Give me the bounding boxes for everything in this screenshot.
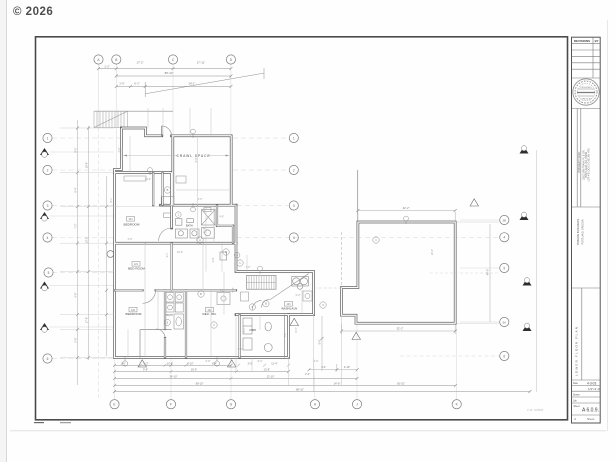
svg-text:C: C (236, 254, 238, 257)
svg-text:Date: Date (573, 382, 579, 385)
svg-text:DESIGNED: DESIGNED (580, 87, 592, 89)
svg-text:1'-2": 1'-2" (104, 64, 110, 68)
svg-text:BATH: BATH (166, 314, 172, 317)
svg-text:13'-8": 13'-8" (264, 369, 270, 372)
svg-text:B: B (265, 302, 267, 306)
svg-text:1: 1 (293, 136, 295, 140)
svg-text:123: 123 (286, 303, 291, 306)
svg-text:REC. RM.: REC. RM. (203, 312, 217, 316)
svg-text:F: F (170, 403, 172, 407)
svg-text:4: 4 (293, 236, 295, 240)
svg-text:4'-0": 4'-0" (321, 366, 326, 369)
svg-text:1: 1 (47, 136, 49, 140)
svg-text:56'-10": 56'-10" (397, 382, 405, 385)
svg-text:6'-8": 6'-8" (206, 360, 211, 363)
svg-text:3: 3 (293, 204, 295, 208)
svg-text:17'-2": 17'-2" (136, 60, 143, 64)
svg-text:8'-0": 8'-0" (74, 147, 77, 152)
svg-text:BEDROOM: BEDROOM (124, 223, 140, 227)
svg-text:7'-2": 7'-2" (74, 223, 77, 228)
svg-text:4'-10": 4'-10" (344, 366, 350, 369)
svg-text:5'-2": 5'-2" (144, 362, 149, 365)
svg-text:OREGON: OREGON (581, 99, 591, 101)
svg-text:3'-1": 3'-1" (166, 252, 169, 257)
svg-text:122: 122 (207, 309, 212, 312)
svg-text:6'-4": 6'-4" (74, 187, 77, 192)
svg-text:3'-6": 3'-6" (198, 198, 203, 201)
svg-text:PROJECT FOR:: PROJECT FOR: (577, 151, 581, 172)
svg-text:4'-2": 4'-2" (118, 147, 121, 152)
svg-text:88'-10": 88'-10" (165, 71, 174, 75)
svg-text:32'-2": 32'-2" (397, 327, 404, 331)
svg-text:Sheets: Sheets (587, 418, 595, 421)
svg-text:2: 2 (293, 168, 295, 172)
svg-text:BEDROOM: BEDROOM (126, 312, 142, 316)
svg-text:14'-6": 14'-6" (334, 381, 341, 385)
svg-text:8'-0": 8'-0" (258, 360, 263, 363)
svg-text:49'-8": 49'-8" (486, 269, 490, 276)
svg-text:10'-6": 10'-6" (177, 251, 183, 254)
svg-text:8'-10": 8'-10" (187, 362, 193, 365)
svg-text:CRAWL SPACE: CRAWL SPACE (176, 154, 210, 158)
svg-text:B: B (167, 188, 169, 192)
svg-text:BED ROOM: BED ROOM (128, 266, 145, 270)
svg-text:WASH/LAUN: WASH/LAUN (281, 307, 297, 311)
svg-text:34'-10": 34'-10" (170, 375, 178, 378)
svg-text:c.w. noted: c.w. noted (527, 408, 544, 412)
svg-text:LOWER FLOOR PLAN: LOWER FLOOR PLAN (575, 326, 579, 376)
svg-text:4-3-03: 4-3-03 (587, 381, 596, 385)
svg-text:17'-6": 17'-6" (85, 317, 88, 323)
svg-text:7'-2": 7'-2" (284, 332, 287, 337)
svg-text:B: B (115, 58, 117, 62)
svg-text:121: 121 (134, 263, 139, 266)
svg-text:6: 6 (47, 357, 49, 361)
svg-text:© 2026: © 2026 (13, 6, 53, 18)
svg-text:9'-0": 9'-0" (195, 157, 198, 162)
svg-text:13'-2": 13'-2" (85, 237, 88, 243)
svg-text:32'-2": 32'-2" (403, 206, 410, 210)
svg-text:20'-2": 20'-2" (431, 249, 434, 255)
svg-text:1/4"=1’-0": 1/4"=1’-0" (588, 387, 601, 391)
svg-text:Sheet: Sheet (574, 405, 580, 408)
svg-text:4'-6": 4'-6" (314, 360, 319, 363)
svg-text:17'-11": 17'-11" (197, 60, 205, 64)
svg-text:4: 4 (47, 236, 49, 240)
svg-text:7'-10": 7'-10" (203, 227, 206, 233)
svg-text:1'-0": 1'-0" (119, 81, 125, 85)
svg-text:5A: 5A (503, 320, 506, 324)
svg-text:6: 6 (503, 354, 505, 358)
svg-text:88'-10": 88'-10" (196, 382, 204, 385)
svg-text:16'-4": 16'-4" (85, 162, 88, 168)
svg-text:8'-6": 8'-6" (319, 339, 322, 344)
svg-text:11'-4": 11'-4" (271, 362, 277, 365)
svg-text:3'-0": 3'-0" (238, 348, 243, 351)
svg-text:22'-10": 22'-10" (267, 375, 275, 378)
svg-text:5: 5 (48, 271, 50, 275)
svg-text:2'-8": 2'-8" (128, 238, 133, 241)
svg-text:4: 4 (503, 236, 505, 240)
svg-text:2'-2": 2'-2" (305, 373, 310, 376)
svg-text:16'-0": 16'-0" (191, 369, 197, 372)
svg-text:B: B (200, 292, 202, 296)
svg-text:5'-8": 5'-8" (74, 337, 77, 342)
svg-text:120: 120 (131, 309, 136, 312)
svg-text:E: E (113, 403, 115, 407)
svg-text:PORTLAND, OREGON: PORTLAND, OREGON (582, 219, 585, 244)
svg-text:3: 3 (47, 204, 49, 208)
svg-text:8'-4": 8'-4" (295, 327, 298, 332)
svg-text:9'-6": 9'-6" (74, 292, 77, 297)
svg-text:24'-1": 24'-1" (188, 81, 195, 85)
svg-text:Drawn: Drawn (573, 393, 580, 396)
svg-text:A 6.0.9.: A 6.0.9. (582, 408, 599, 414)
svg-text:124: 124 (128, 218, 133, 221)
svg-text:9'-8": 9'-8" (143, 369, 148, 372)
svg-text:10'-8": 10'-8" (167, 362, 173, 365)
svg-text:LOT 4 BLOCK 2 CHELAN HTS: LOT 4 BLOCK 2 CHELAN HTS (588, 148, 591, 182)
svg-text:5'-2": 5'-2" (296, 294, 301, 297)
svg-text:4'-0": 4'-0" (219, 215, 224, 218)
svg-text:6'-1": 6'-1" (110, 197, 113, 202)
svg-text:6'-2": 6'-2" (243, 327, 246, 332)
svg-text:6'-1": 6'-1" (134, 81, 140, 85)
svg-text:BATH: BATH (186, 223, 193, 227)
svg-text:A: A (199, 238, 201, 242)
svg-text:2: 2 (47, 168, 49, 172)
svg-text:88'-10": 88'-10" (296, 389, 304, 392)
svg-text:5'-0": 5'-0" (232, 287, 235, 292)
svg-text:REVISIONS: REVISIONS (574, 39, 590, 43)
svg-text:7'-0": 7'-0" (246, 266, 251, 269)
svg-text:2'-6": 2'-6" (212, 257, 215, 262)
svg-text:BY: BY (595, 39, 599, 43)
svg-text:TRIGON BUILDERS: TRIGON BUILDERS (576, 219, 580, 246)
svg-text:of: of (574, 418, 576, 421)
svg-text:CURB: CURB (249, 329, 256, 332)
svg-text:5: 5 (503, 266, 505, 270)
svg-text:3B: 3B (503, 218, 506, 222)
